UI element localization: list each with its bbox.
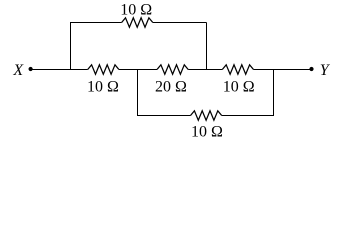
wire bottom branch right horizontal xyxy=(222,115,274,117)
svg-text:Y: Y xyxy=(320,62,331,79)
wire top branch right vertical xyxy=(206,23,208,70)
wire top branch left horizontal xyxy=(70,22,122,24)
resistor R4 10 ohm (top branch) xyxy=(122,18,153,27)
wire top branch right horizontal xyxy=(153,22,207,24)
wire R1 to R2 (through bottom junction) xyxy=(119,69,157,71)
resistor R5 10 ohm (bottom branch) xyxy=(191,111,222,120)
wire bottom branch left horizontal xyxy=(137,115,191,117)
wire bottom branch right vertical xyxy=(273,70,275,116)
node X terminal dot xyxy=(29,67,33,71)
wire X to R1 xyxy=(32,69,88,71)
resistor R3 10 ohm (right, main line) xyxy=(222,65,253,74)
resistor R1 10 ohm (left, main line) xyxy=(88,65,119,74)
svg-text:10 Ω: 10 Ω xyxy=(191,123,223,140)
wire bottom branch left vertical xyxy=(137,70,139,116)
svg-text:X: X xyxy=(12,62,24,79)
svg-text:10 Ω: 10 Ω xyxy=(120,2,152,19)
svg-text:20 Ω: 20 Ω xyxy=(155,79,187,96)
resistor R2 20 ohm (middle, main line) xyxy=(157,65,188,74)
node Y terminal dot xyxy=(309,67,313,71)
wire top branch left vertical xyxy=(70,23,72,70)
wire R2 to R3 (through top junction) xyxy=(188,69,222,71)
svg-text:10 Ω: 10 Ω xyxy=(223,79,255,96)
svg-text:10 Ω: 10 Ω xyxy=(87,79,119,96)
wire R3 to Y (through bottom junction) xyxy=(254,69,312,71)
